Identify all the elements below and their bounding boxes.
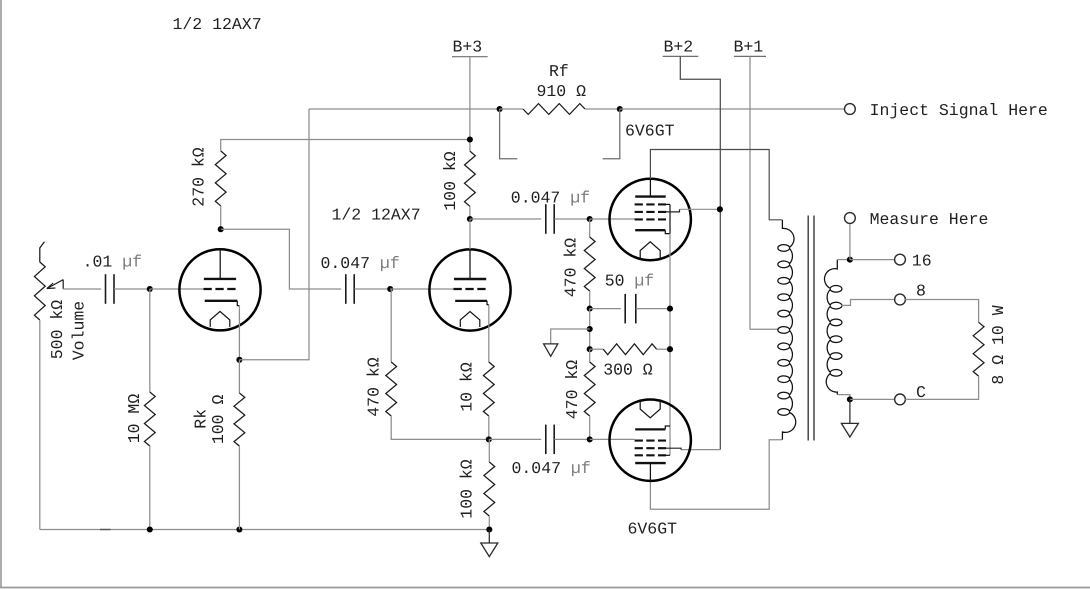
resistor 470k V1b grid bbox=[386, 289, 489, 439]
resistor Rk 100 bbox=[234, 360, 245, 530]
label 1/2 12AX7 V1b bbox=[332, 206, 421, 225]
wire grid node to 6V6a bbox=[590, 218, 635, 220]
capacitor C1 .01uf bbox=[106, 274, 115, 304]
node bus end bbox=[486, 526, 492, 532]
wire 6V6a plate to primary bbox=[650, 150, 782, 220]
wire B+3 lead bbox=[469, 57, 471, 151]
node 6V6b grid junction bbox=[587, 436, 593, 442]
node bus Rk bbox=[236, 526, 242, 532]
node C tap bbox=[847, 396, 853, 402]
label 300 Ohm bbox=[603, 361, 653, 380]
6V6a suppressor tie bbox=[663, 204, 670, 233]
node Rf right bbox=[617, 106, 623, 112]
resistor 300 Ohm bbox=[590, 344, 670, 355]
node V1a plate junction bbox=[218, 226, 224, 232]
wire secondary bottom to C node bbox=[837, 395, 850, 400]
6V6a plate bbox=[635, 179, 666, 197]
frame left border bbox=[0, 0, 2, 588]
label 100 Ohm Rk bbox=[209, 395, 228, 445]
label 50 uf bbox=[605, 272, 655, 291]
label Inject Signal Here bbox=[870, 101, 1048, 120]
6V6a screen wire bbox=[666, 209, 720, 212]
wire B+2 bbox=[680, 56, 720, 449]
pot wiper arrow bbox=[47, 280, 63, 289]
V1a plate bbox=[204, 249, 236, 279]
label 270 kOhm bbox=[189, 147, 208, 207]
label 10 kOhm bbox=[457, 362, 476, 412]
svg-text:500 kΩ: 500 kΩ bbox=[48, 300, 67, 360]
svg-text:Measure Here: Measure Here bbox=[870, 210, 989, 229]
B+3 underline bbox=[452, 56, 488, 58]
node gnd tap bbox=[587, 326, 593, 332]
label C bbox=[916, 383, 926, 402]
frame bottom border bbox=[0, 587, 1090, 589]
capacitor C2 0.047uf bbox=[346, 274, 354, 304]
wire 16 line bbox=[850, 259, 895, 261]
node B+3 270k junction bbox=[467, 136, 473, 142]
label 8 Ohm 10 W bbox=[989, 305, 1008, 384]
svg-text:910 Ω: 910 Ω bbox=[537, 82, 587, 101]
wire grid node to V1b bbox=[390, 288, 453, 290]
node V1b grid junction bbox=[387, 286, 393, 292]
6V6b heater bbox=[640, 399, 660, 418]
wire feedback bbox=[239, 109, 309, 360]
wire B+2 to screen2 bbox=[666, 448, 720, 449]
triode V1b circle bbox=[429, 249, 510, 330]
svg-text:10 MΩ: 10 MΩ bbox=[125, 394, 144, 444]
transformer core bbox=[808, 216, 814, 441]
wire secondary top to 16 node bbox=[837, 259, 850, 261]
svg-text:470 kΩ: 470 kΩ bbox=[562, 238, 581, 298]
6V6b grids bbox=[635, 441, 666, 456]
wire C line bbox=[850, 398, 895, 400]
6V6b cathode bbox=[635, 426, 670, 429]
wire tail to C4 bbox=[489, 438, 541, 440]
label 10 MOhm bbox=[125, 394, 144, 444]
triode V1a circle bbox=[179, 249, 260, 330]
label 470 kOhm V1b bbox=[365, 357, 384, 417]
wire C4 to grid node bbox=[554, 438, 589, 440]
label 500 kOhm bbox=[48, 300, 67, 360]
wire measure stub bbox=[849, 223, 851, 259]
svg-text:Volume: Volume bbox=[70, 301, 89, 360]
ground C tap bbox=[841, 399, 858, 437]
node plate-cap junction bbox=[467, 216, 473, 222]
label 0.047 uf lower bbox=[512, 459, 591, 478]
node 16 tap bbox=[847, 257, 853, 263]
label 910 Ohm bbox=[537, 82, 587, 101]
label B+1 bbox=[734, 38, 764, 57]
label Volume bbox=[70, 301, 89, 360]
label Rf bbox=[549, 62, 569, 81]
svg-text:470 kΩ: 470 kΩ bbox=[563, 360, 582, 420]
6V6a grids bbox=[635, 204, 666, 219]
resistor 8 Ohm load bbox=[973, 322, 984, 376]
node B+2 screen1 bbox=[717, 206, 723, 212]
node 50uf cathode bbox=[667, 306, 673, 312]
svg-text:B+2: B+2 bbox=[664, 38, 694, 57]
node 470k-50uf bbox=[587, 306, 593, 312]
label 100 kOhm plate bbox=[441, 151, 460, 211]
terminal C bbox=[895, 394, 906, 405]
resistor 270k bbox=[215, 140, 470, 230]
node Rf left bbox=[497, 106, 503, 112]
resistor Rf 910 bbox=[500, 104, 620, 115]
label 1/2 12AX7 V1a bbox=[173, 15, 262, 34]
transformer primary winding bbox=[778, 220, 796, 440]
wire 100k to C3 bbox=[470, 218, 541, 220]
pentode 6V6 lower circle bbox=[610, 400, 691, 481]
hook left bbox=[500, 109, 518, 159]
node 300 left bbox=[587, 346, 593, 352]
wire grid node to V1a bbox=[150, 288, 204, 290]
svg-text:B+1: B+1 bbox=[734, 38, 764, 57]
svg-text:100 kΩ: 100 kΩ bbox=[441, 151, 460, 211]
wire 6V6b plate to primary bbox=[650, 440, 782, 509]
svg-text:16: 16 bbox=[912, 252, 932, 271]
wire 50uf right bbox=[636, 308, 670, 310]
wire grid node to 6V6b bbox=[590, 438, 635, 440]
svg-text:0.047 µf: 0.047 µf bbox=[511, 189, 590, 208]
wire cathode line bbox=[669, 234, 671, 456]
svg-text:1/2 12AX7: 1/2 12AX7 bbox=[332, 206, 421, 225]
V1b grid dashes bbox=[454, 288, 487, 290]
potentiometer 500k Volume bbox=[34, 242, 45, 530]
B+2 underline bbox=[663, 55, 699, 57]
svg-text:100 kΩ: 100 kΩ bbox=[457, 459, 476, 519]
wire inject row bbox=[309, 108, 500, 110]
svg-text:Inject Signal Here: Inject Signal Here bbox=[870, 101, 1048, 120]
resistor 470k lower bbox=[584, 349, 595, 439]
node tail junction bbox=[486, 436, 492, 442]
wire 50uf left bbox=[590, 308, 621, 310]
label B+2 bbox=[664, 38, 694, 57]
svg-text:100 Ω: 100 Ω bbox=[209, 395, 228, 445]
node V1a cathode junction bbox=[236, 357, 242, 363]
label 16 bbox=[912, 252, 932, 271]
resistor 470k upper bbox=[584, 219, 595, 309]
svg-text:300 Ω: 300 Ω bbox=[603, 361, 653, 380]
svg-text:.01 µf: .01 µf bbox=[83, 253, 142, 272]
svg-text:10 kΩ: 10 kΩ bbox=[457, 362, 476, 412]
node 6V6a grid junction bbox=[587, 216, 593, 222]
resistor 10k bbox=[483, 362, 494, 439]
terminal 16 bbox=[895, 254, 906, 265]
label 470 kOhm upper bbox=[562, 238, 581, 298]
V1b heater bbox=[460, 312, 480, 328]
node 300 right bbox=[667, 346, 673, 352]
wire 8 to load bbox=[905, 300, 978, 323]
wire C1 to grid node bbox=[114, 288, 150, 290]
V1b plate bbox=[454, 249, 486, 279]
wire V1a plate to C2 bbox=[221, 229, 342, 289]
wire bias mid bbox=[589, 309, 591, 350]
svg-text:1/2 12AX7: 1/2 12AX7 bbox=[173, 15, 262, 34]
wire wiper to C1 bbox=[63, 288, 101, 290]
wire 8 tap bbox=[842, 300, 895, 306]
ground main bbox=[481, 530, 498, 557]
node bus 10M bbox=[147, 526, 153, 532]
resistor 100k V1b plate bbox=[465, 151, 476, 219]
wire C2 to V1b grid node bbox=[354, 288, 390, 290]
capacitor C3 0.047uf bbox=[546, 204, 554, 234]
wire bus tick bbox=[100, 529, 111, 531]
svg-text:0.047 µf: 0.047 µf bbox=[321, 254, 400, 273]
svg-text:50 µf: 50 µf bbox=[605, 272, 655, 291]
label 0.047 uf stage2 bbox=[321, 254, 400, 273]
label B+3 bbox=[453, 38, 483, 57]
label 6V6GT upper bbox=[625, 122, 675, 141]
ground bias bbox=[544, 329, 590, 356]
svg-text:470 kΩ: 470 kΩ bbox=[365, 357, 384, 417]
terminal 8 bbox=[895, 294, 906, 305]
hook right bbox=[603, 109, 620, 159]
svg-text:6V6GT: 6V6GT bbox=[625, 122, 675, 141]
wire load to C bbox=[905, 376, 978, 399]
6V6a cathode bbox=[635, 230, 670, 233]
terminal measure bbox=[845, 213, 856, 224]
6V6b plate bbox=[635, 463, 666, 481]
V1a heater bbox=[210, 311, 230, 327]
label 8 bbox=[916, 282, 926, 301]
wire inject to terminal bbox=[620, 108, 845, 110]
svg-text:6V6GT: 6V6GT bbox=[628, 520, 678, 539]
label .01 uf bbox=[83, 253, 142, 272]
V1a cathode bbox=[205, 301, 240, 360]
V1b cathode bbox=[455, 301, 489, 362]
svg-text:8 Ω 10 W: 8 Ω 10 W bbox=[989, 305, 1008, 384]
label Rk bbox=[191, 409, 210, 429]
svg-text:8: 8 bbox=[916, 282, 926, 301]
wire B+1 to CT bbox=[750, 56, 779, 329]
wire ground bus bbox=[40, 529, 490, 531]
6V6a heater bbox=[640, 242, 660, 260]
terminal inject bbox=[845, 104, 856, 115]
wire V1b plate to junction bbox=[469, 219, 471, 249]
B+1 underline bbox=[734, 55, 766, 57]
label 470 kOhm lower bbox=[563, 360, 582, 420]
svg-text:B+3: B+3 bbox=[453, 38, 483, 57]
wire C3 to grid node bbox=[554, 218, 589, 220]
label 0.047 uf upper bbox=[511, 189, 590, 208]
node V1a grid junction bbox=[147, 286, 153, 292]
capacitor C4 0.047uf bbox=[546, 425, 554, 455]
label 100 kOhm tail bbox=[457, 459, 476, 519]
6V6b suppressor tie bbox=[663, 454, 670, 456]
svg-text:0.047 µf: 0.047 µf bbox=[512, 459, 591, 478]
capacitor 50uf bbox=[625, 294, 636, 324]
label 6V6GT lower bbox=[628, 520, 678, 539]
label Measure Here bbox=[870, 210, 989, 229]
resistor 100k tail bbox=[484, 439, 495, 529]
transformer secondary winding bbox=[824, 260, 841, 395]
resistor 10M bbox=[144, 289, 155, 530]
svg-text:Rf: Rf bbox=[549, 62, 569, 81]
pentode 6V6 upper circle bbox=[610, 179, 691, 260]
svg-text:270 kΩ: 270 kΩ bbox=[189, 147, 208, 207]
V1a grid dashes bbox=[204, 288, 237, 290]
svg-text:Rk: Rk bbox=[191, 409, 210, 429]
